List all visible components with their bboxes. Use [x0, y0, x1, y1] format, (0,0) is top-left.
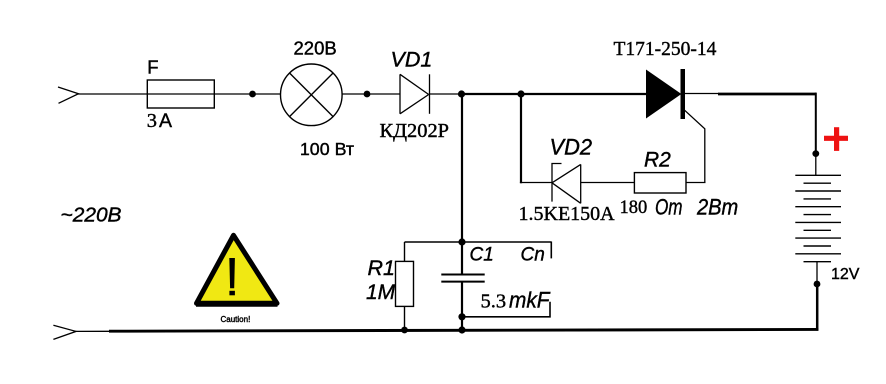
svg-text:180: 180 [620, 198, 648, 218]
node dot C1 top [458, 238, 465, 245]
svg-text:3А: 3А [147, 110, 172, 132]
tick Cn bracket [550, 242, 552, 259]
input terminal arrow bottom [53, 325, 76, 339]
svg-text:КД202Р: КД202Р [380, 121, 450, 142]
wire top: arrow to lamp [78, 93, 281, 95]
node dot 12V [814, 281, 821, 288]
node dot C1 bottom bracket [458, 313, 465, 320]
svg-text:2Bm: 2Bm [696, 195, 738, 220]
wire C1 bottom lead [461, 282, 463, 331]
capacitor C1 plates [441, 275, 484, 282]
svg-text:VD1: VD1 [391, 48, 433, 72]
node dot lamp-VD1 [364, 91, 371, 98]
resistor R2 [634, 173, 686, 193]
battery GB1 12V [795, 175, 841, 261]
svg-text:F: F [147, 57, 158, 78]
svg-text:~220В: ~220В [61, 205, 122, 227]
wire thyristor to corner (thin then thick) [685, 93, 719, 95]
svg-text:5.3: 5.3 [481, 291, 507, 313]
wire R2 to gate [686, 182, 706, 184]
svg-text:1M: 1M [366, 281, 396, 304]
lamp HL1 [281, 64, 343, 126]
wire to VD2 [520, 182, 552, 184]
svg-text:R1: R1 [368, 256, 395, 280]
svg-text:Cn: Cn [521, 245, 545, 266]
wire lamp to VD1 [342, 93, 401, 95]
svg-text:mkF: mkF [509, 288, 551, 313]
node dot fuse-lamp [249, 91, 256, 98]
wire bottom rail thick [109, 329, 818, 331]
svg-text:100 Вт: 100 Вт [300, 139, 354, 159]
wire bottom rail thin [75, 330, 110, 332]
wire VD1 to node A [430, 93, 462, 95]
svg-text:Caution!: Caution! [221, 315, 251, 324]
wire VD2 to R2 [581, 182, 635, 184]
node dot R1 bottom [401, 327, 408, 334]
wire VD2 branch vertical [520, 94, 522, 183]
resistor R1 [396, 261, 414, 306]
warning triangle [196, 235, 278, 304]
svg-text:Om: Om [655, 195, 683, 220]
node dot C1 on rail [458, 326, 465, 333]
wire battery to bottom rail [816, 284, 819, 331]
node B dot (to VD2 branch) [517, 90, 524, 97]
svg-text:VD2: VD2 [550, 134, 593, 159]
diode VD2 (TVS) [552, 164, 581, 204]
wire R1/C1 top rail [405, 241, 552, 243]
input terminal arrow top [58, 87, 79, 103]
wire mkF bracket [462, 302, 550, 317]
battery bottom stub [816, 262, 818, 284]
wire R1 top lead [404, 242, 406, 261]
wire right vertical down to battery [815, 93, 817, 154]
wire R1 bottom lead [404, 306, 406, 331]
svg-text:1.5KE150A: 1.5KE150A [519, 203, 616, 225]
wire C1 branch vertical [461, 94, 463, 275]
svg-text:220В: 220В [294, 37, 337, 58]
thyristor VS1 [647, 69, 705, 183]
svg-text:Т171-250-14: Т171-250-14 [614, 39, 717, 60]
node dot above battery [812, 150, 819, 157]
wire node B to thyristor [521, 93, 647, 95]
fuse F1 [147, 80, 214, 108]
svg-text:12V: 12V [831, 266, 860, 283]
diode VD1 [400, 74, 430, 114]
svg-text:C1: C1 [470, 245, 494, 266]
plus sign red [824, 127, 848, 151]
svg-text:R2: R2 [644, 149, 671, 172]
node A dot (to C1 branch) [458, 90, 465, 97]
wire node A to node B [462, 93, 522, 95]
